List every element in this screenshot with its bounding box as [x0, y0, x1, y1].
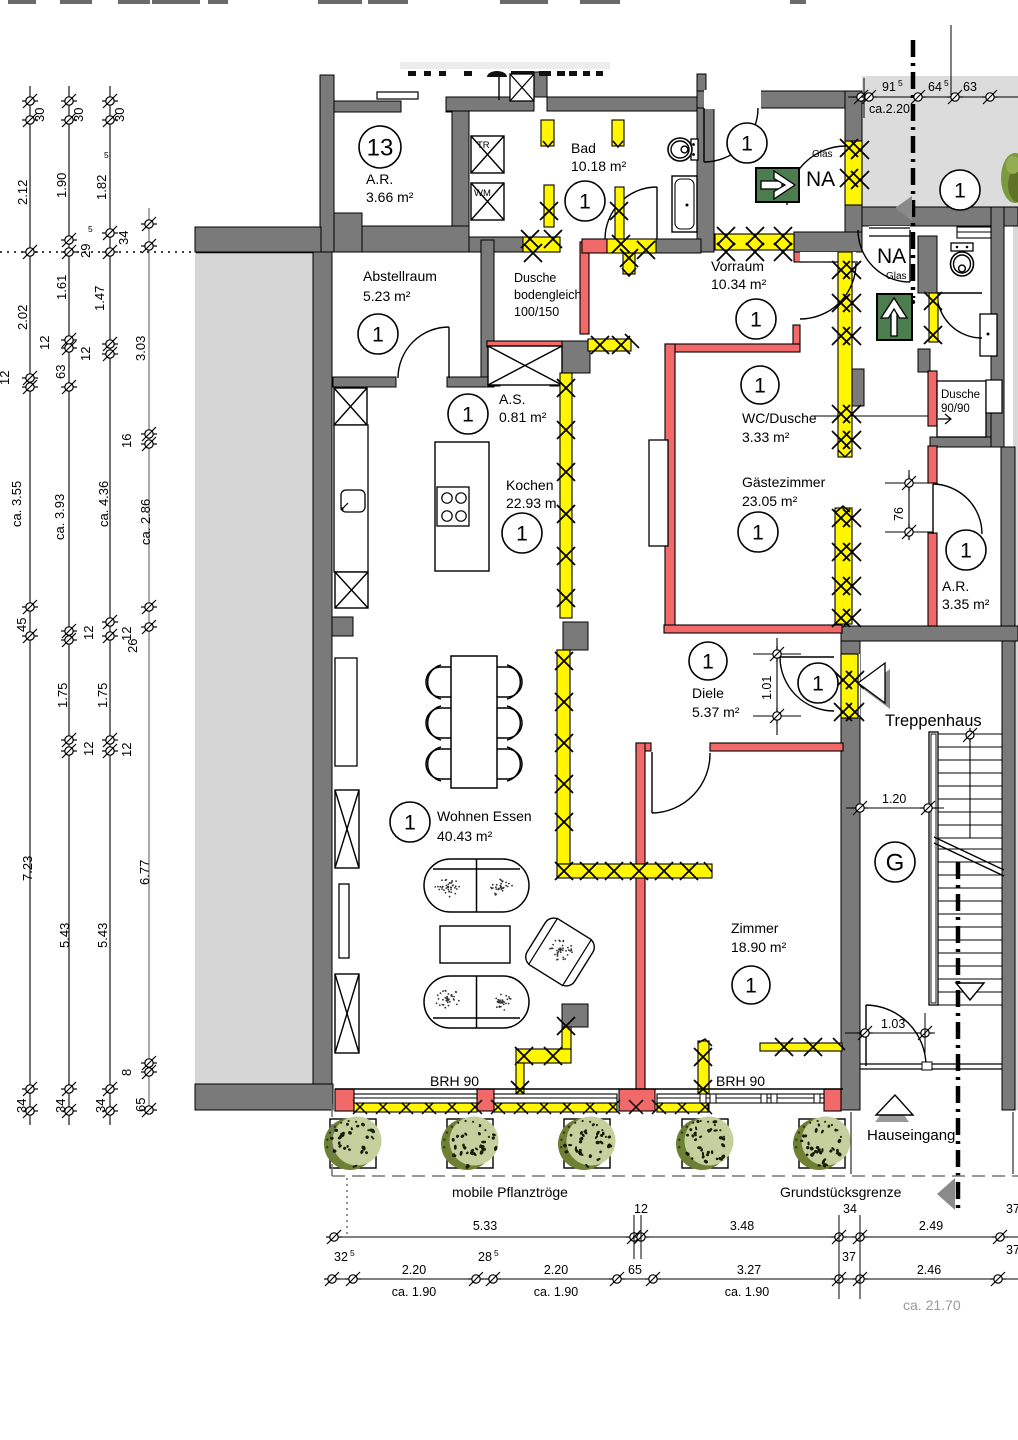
svg-text:5.37 m²: 5.37 m² [692, 704, 740, 720]
svg-text:2.49: 2.49 [919, 1219, 943, 1233]
svg-text:Gästezimmer: Gästezimmer [742, 474, 826, 490]
svg-text:TR: TR [477, 140, 490, 151]
svg-text:65: 65 [628, 1263, 642, 1277]
svg-text:Glas: Glas [886, 271, 907, 282]
svg-text:64: 64 [928, 80, 942, 94]
svg-text:WM: WM [474, 188, 491, 199]
svg-text:3.03: 3.03 [133, 336, 148, 361]
svg-text:1: 1 [579, 191, 591, 214]
svg-text:5.23 m²: 5.23 m² [363, 288, 411, 304]
svg-text:12: 12 [78, 347, 93, 361]
svg-text:1: 1 [372, 324, 384, 347]
svg-text:G: G [886, 850, 905, 877]
svg-text:WC/Dusche: WC/Dusche [742, 410, 817, 426]
svg-text:1.61: 1.61 [54, 275, 69, 300]
svg-text:1: 1 [750, 309, 762, 332]
svg-text:ca. 2.86: ca. 2.86 [138, 499, 153, 545]
svg-text:12: 12 [37, 336, 52, 350]
svg-text:37: 37 [1006, 1243, 1018, 1257]
svg-text:BRH 90: BRH 90 [716, 1073, 765, 1089]
svg-text:5: 5 [944, 78, 949, 88]
svg-text:ca. 3.93: ca. 3.93 [52, 494, 67, 540]
svg-text:Dusche: Dusche [514, 271, 556, 285]
svg-text:10.34 m²: 10.34 m² [711, 276, 767, 292]
svg-text:12: 12 [81, 626, 96, 640]
svg-text:37: 37 [1006, 1202, 1018, 1216]
svg-text:34: 34 [53, 1099, 68, 1113]
svg-text:12: 12 [81, 742, 96, 756]
svg-text:Wohnen Essen: Wohnen Essen [437, 808, 532, 824]
svg-text:18.90 m²: 18.90 m² [731, 939, 787, 955]
svg-text:12: 12 [119, 743, 134, 757]
svg-text:ca. 3.55: ca. 3.55 [9, 481, 24, 527]
svg-text:5: 5 [88, 224, 93, 234]
svg-text:ca. 1.90: ca. 1.90 [534, 1285, 579, 1299]
svg-text:34: 34 [116, 231, 131, 245]
svg-text:Bad: Bad [571, 140, 596, 156]
svg-text:1: 1 [954, 180, 966, 203]
svg-text:A.R.: A.R. [366, 171, 393, 187]
svg-text:23.05 m²: 23.05 m² [742, 493, 798, 509]
svg-text:3.35 m²: 3.35 m² [942, 596, 990, 612]
svg-text:30: 30 [32, 108, 47, 122]
svg-text:16: 16 [119, 434, 134, 448]
svg-text:40.43 m²: 40.43 m² [437, 828, 493, 844]
svg-text:1: 1 [960, 540, 972, 563]
svg-text:Treppenhaus: Treppenhaus [885, 712, 982, 730]
svg-text:30: 30 [71, 108, 86, 122]
svg-text:Vorraum: Vorraum [711, 258, 764, 274]
svg-text:28: 28 [478, 1250, 492, 1264]
svg-text:ca. 1.90: ca. 1.90 [392, 1285, 437, 1299]
svg-text:1.75: 1.75 [95, 683, 110, 708]
svg-text:1: 1 [462, 404, 474, 427]
svg-text:3.66 m²: 3.66 m² [366, 189, 414, 205]
svg-text:1.20: 1.20 [882, 792, 906, 806]
svg-text:NA: NA [877, 245, 906, 268]
svg-text:90/90: 90/90 [941, 403, 970, 415]
svg-text:1: 1 [752, 522, 764, 545]
svg-text:ca. 21.70: ca. 21.70 [903, 1297, 961, 1313]
svg-text:26: 26 [125, 639, 140, 653]
svg-text:2.02: 2.02 [15, 305, 30, 330]
svg-text:91: 91 [882, 80, 896, 94]
svg-text:1.47: 1.47 [92, 286, 107, 311]
svg-text:2.46: 2.46 [917, 1263, 941, 1277]
svg-text:Glas: Glas [812, 149, 833, 160]
svg-text:100/150: 100/150 [514, 305, 559, 319]
svg-text:5: 5 [350, 1248, 355, 1258]
svg-text:Grundstücksgrenze: Grundstücksgrenze [780, 1184, 902, 1200]
svg-text:1: 1 [812, 673, 824, 696]
svg-text:BRH 90: BRH 90 [430, 1073, 479, 1089]
svg-text:Diele: Diele [692, 685, 724, 701]
svg-text:5.43: 5.43 [57, 923, 72, 948]
svg-text:1: 1 [741, 133, 753, 156]
svg-text:1.75: 1.75 [55, 683, 70, 708]
svg-text:5: 5 [104, 150, 109, 160]
svg-text:5.43: 5.43 [95, 923, 110, 948]
svg-text:13: 13 [367, 135, 394, 162]
svg-text:ca. 4.36: ca. 4.36 [96, 481, 111, 527]
svg-text:1: 1 [702, 651, 714, 674]
svg-text:1: 1 [516, 523, 528, 546]
svg-text:34: 34 [14, 1099, 29, 1113]
svg-text:5: 5 [494, 1248, 499, 1258]
svg-text:1.90: 1.90 [54, 173, 69, 198]
svg-text:63: 63 [963, 80, 977, 94]
svg-text:NA: NA [806, 168, 835, 191]
svg-text:mobile Pflanztröge: mobile Pflanztröge [452, 1184, 568, 1200]
svg-text:1: 1 [754, 375, 766, 398]
svg-text:76: 76 [892, 507, 906, 521]
svg-text:29: 29 [78, 244, 93, 258]
svg-text:12: 12 [634, 1202, 648, 1216]
svg-text:Zimmer: Zimmer [731, 920, 779, 936]
svg-text:63: 63 [53, 365, 68, 379]
svg-text:Dusche: Dusche [941, 389, 980, 401]
svg-text:3.33 m²: 3.33 m² [742, 429, 790, 445]
svg-text:1.03: 1.03 [881, 1017, 905, 1031]
svg-text:1.82: 1.82 [94, 175, 109, 200]
svg-text:2.20: 2.20 [544, 1263, 568, 1277]
svg-text:3.27: 3.27 [737, 1263, 761, 1277]
svg-text:30: 30 [112, 108, 127, 122]
svg-text:32: 32 [334, 1250, 348, 1264]
svg-text:A.S.: A.S. [499, 391, 525, 407]
svg-text:Kochen: Kochen [506, 477, 553, 493]
svg-text:ca. 1.90: ca. 1.90 [725, 1285, 770, 1299]
svg-text:1: 1 [404, 812, 416, 835]
svg-text:10.18 m²: 10.18 m² [571, 158, 627, 174]
svg-text:3.48: 3.48 [730, 1219, 754, 1233]
svg-text:45: 45 [14, 618, 29, 632]
svg-text:22.93 m: 22.93 m [506, 495, 557, 511]
svg-text:5: 5 [898, 78, 903, 88]
svg-text:ca.2.20: ca.2.20 [869, 102, 910, 116]
svg-text:2.20: 2.20 [402, 1263, 426, 1277]
svg-text:0.81 m²: 0.81 m² [499, 409, 547, 425]
svg-text:1: 1 [745, 975, 757, 998]
svg-text:7.23: 7.23 [20, 856, 35, 881]
svg-text:2.12: 2.12 [15, 180, 30, 205]
svg-text:5.33: 5.33 [473, 1219, 497, 1233]
svg-text:34: 34 [843, 1202, 857, 1216]
svg-text:1.01: 1.01 [760, 676, 774, 700]
svg-text:65: 65 [133, 1098, 148, 1112]
svg-text:bodengleich: bodengleich [514, 288, 581, 302]
svg-text:Abstellraum: Abstellraum [363, 268, 437, 284]
svg-text:Hauseingang: Hauseingang [867, 1127, 955, 1144]
svg-text:37: 37 [842, 1250, 856, 1264]
svg-text:34: 34 [93, 1099, 108, 1113]
svg-text:6.77: 6.77 [137, 860, 152, 885]
svg-text:12: 12 [0, 371, 12, 385]
svg-text:8: 8 [119, 1069, 134, 1076]
svg-text:A.R.: A.R. [942, 578, 969, 594]
